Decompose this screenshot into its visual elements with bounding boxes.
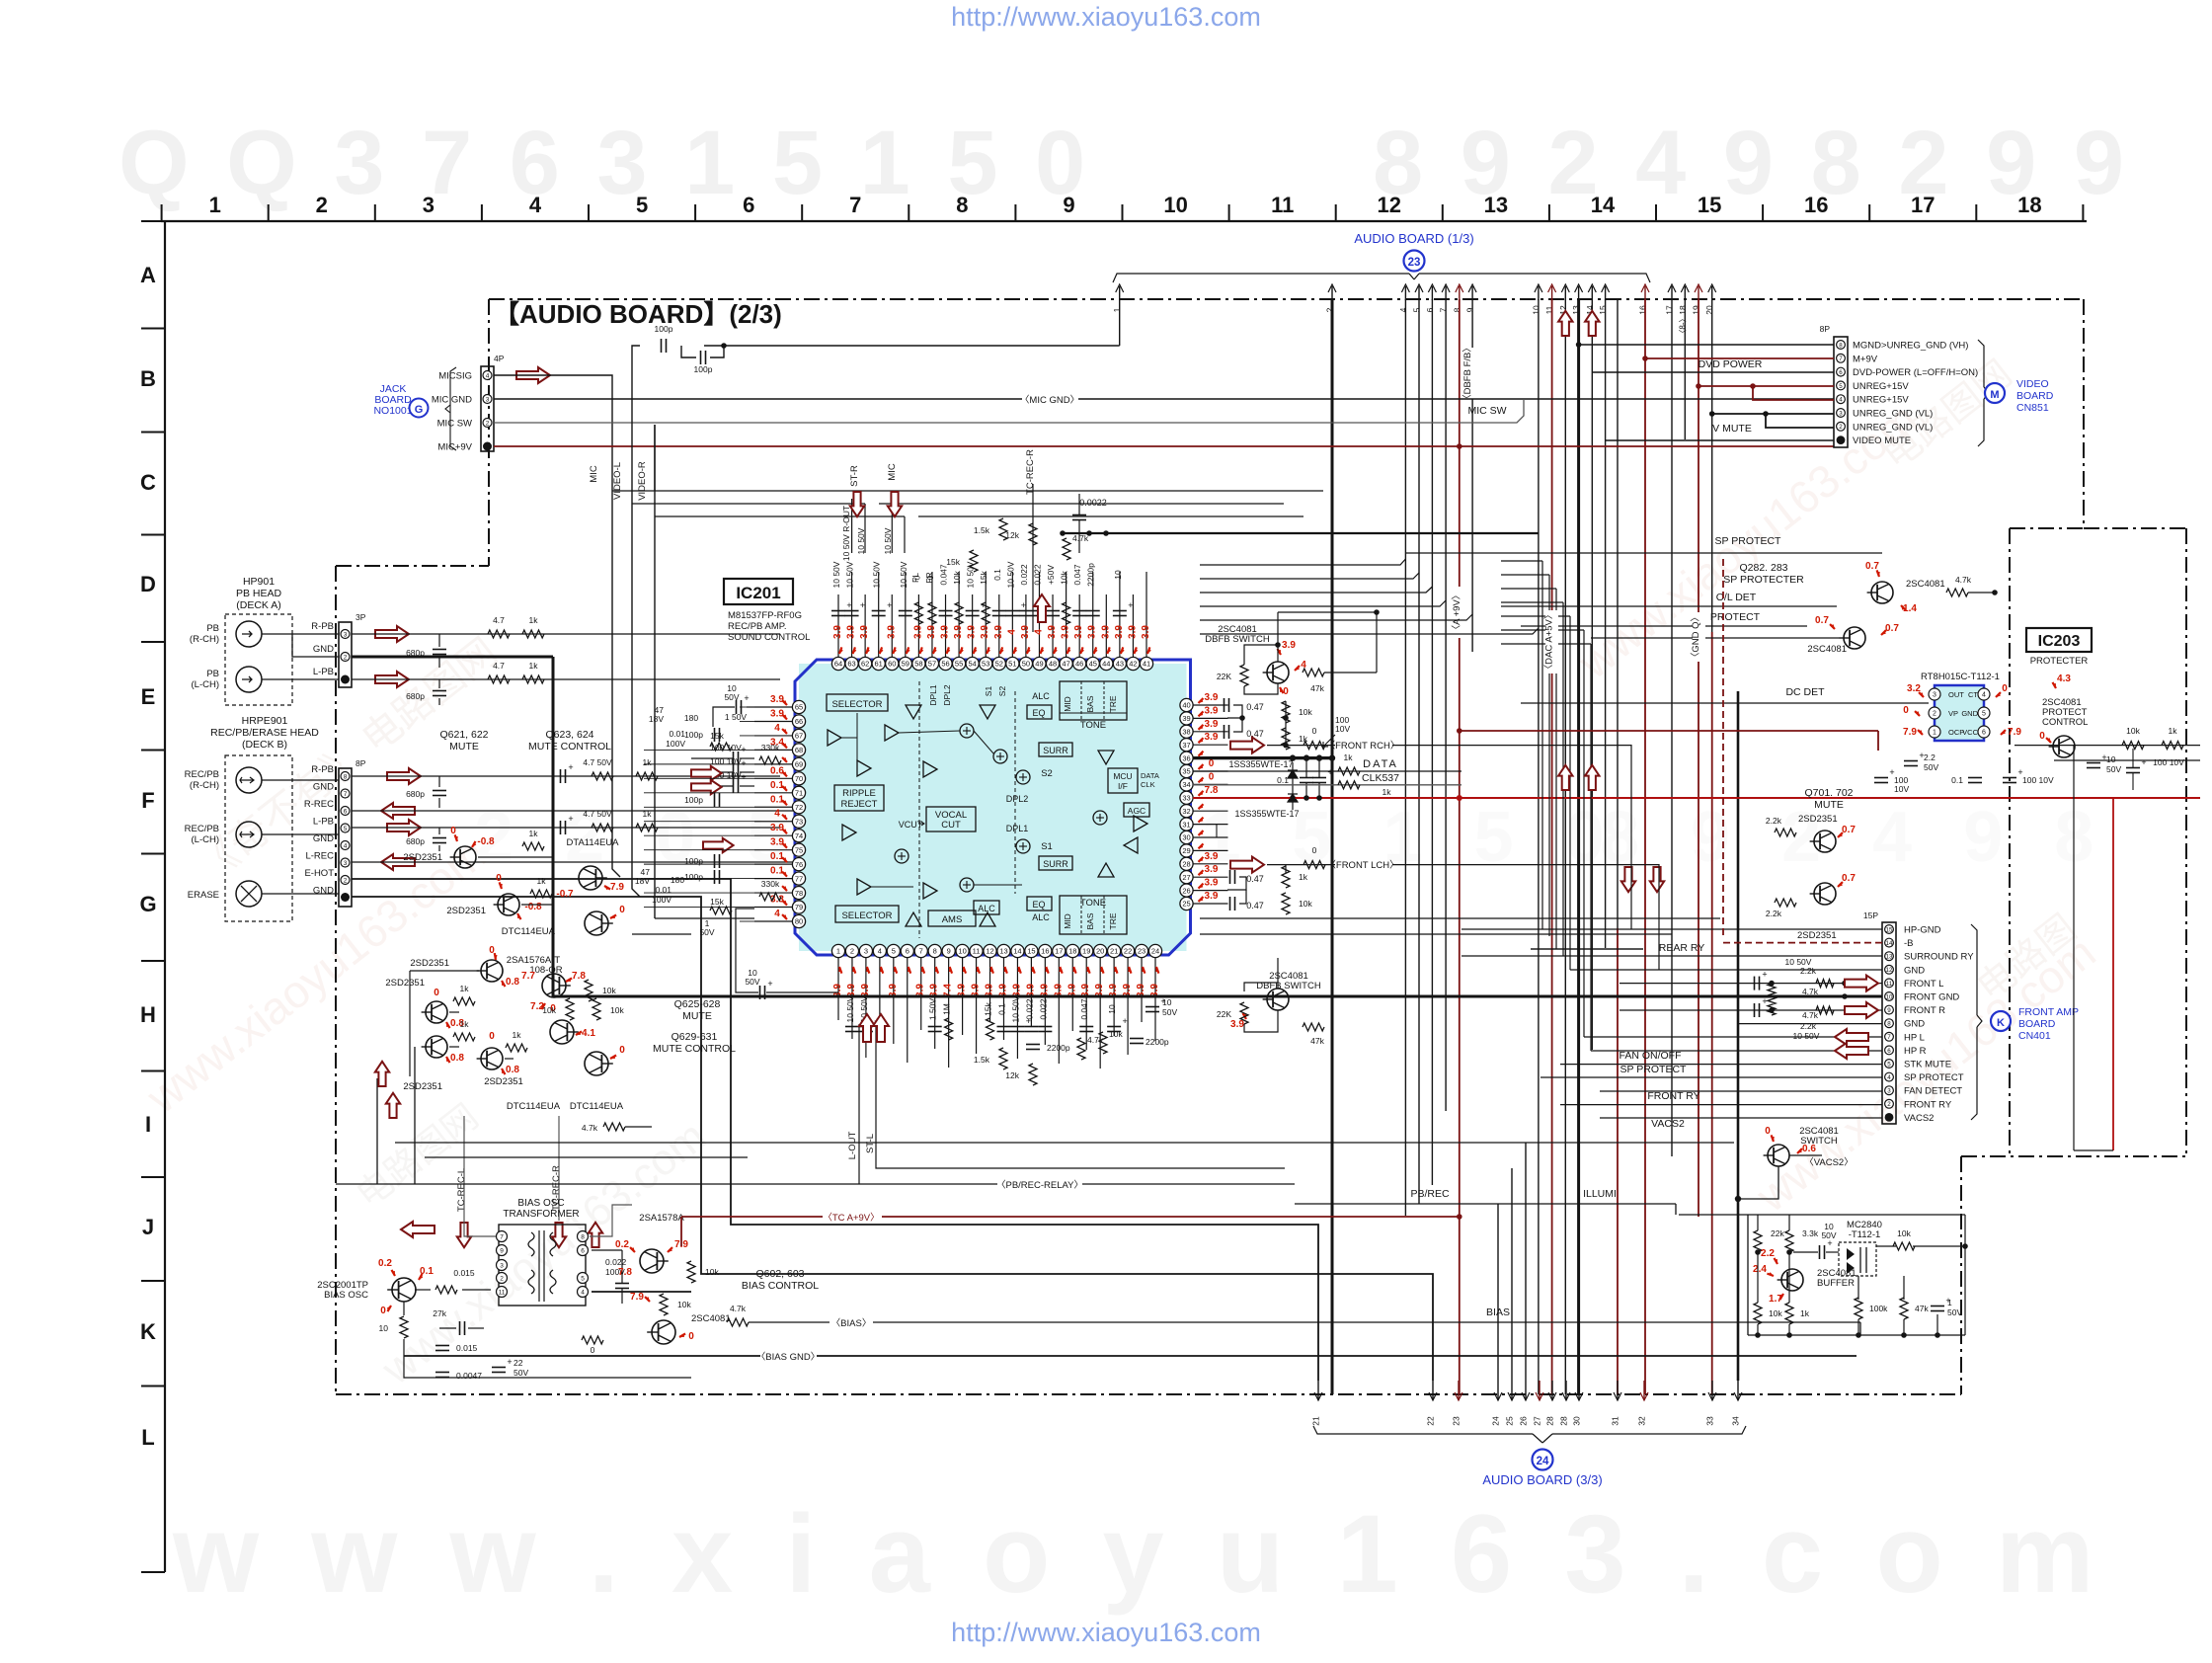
svg-text:10V: 10V [1335, 724, 1350, 734]
svg-text:2: 2 [1887, 1101, 1891, 1108]
svg-text:3.9: 3.9 [1073, 625, 1084, 639]
top bus pin 17 [1671, 286, 1673, 300]
svg-text:3.9: 3.9 [1141, 625, 1151, 639]
wire MGND [1579, 344, 1834, 346]
svg-text:3.9: 3.9 [993, 625, 1004, 639]
svg-text:4: 4 [1398, 307, 1408, 312]
pin 51 [1006, 657, 1019, 670]
svg-text:CT: CT [1968, 690, 1978, 699]
svg-text:4: 4 [1006, 629, 1017, 635]
capacitor 0.47 r40 [1224, 698, 1225, 712]
svg-text:SP PROTECT: SP PROTECT [1904, 1072, 1964, 1083]
wire vertical bus [1431, 299, 1433, 1185]
wire vertical bus [1577, 299, 1580, 1394]
svg-text:0.1: 0.1 [770, 866, 784, 877]
svg-text:0.022: 0.022 [1019, 564, 1029, 586]
svg-text:15P: 15P [1863, 911, 1878, 920]
wire BIAS [749, 1321, 829, 1323]
wire R-PB deck A [352, 633, 780, 635]
capacitor 0.0047 [435, 1372, 449, 1374]
svg-text:79: 79 [795, 903, 803, 911]
svg-text:65: 65 [795, 703, 803, 712]
svg-text:MIC: MIC [887, 463, 898, 481]
svg-text:0.47: 0.47 [1246, 874, 1264, 884]
top bus pin 5 [1418, 286, 1420, 300]
wire spb base [1591, 637, 1840, 639]
red arrow deck B lrec [381, 854, 415, 870]
svg-text:2: 2 [1933, 711, 1936, 718]
op-amp IC201 label box [724, 579, 793, 604]
top bus pin 19 [1698, 286, 1699, 300]
svg-text:OUT: OUT [1948, 690, 1964, 699]
svg-text:0.1: 0.1 [1277, 775, 1289, 785]
selector box top [827, 694, 888, 711]
cap 2200p below a [1026, 1044, 1040, 1046]
svg-text:47k: 47k [1310, 683, 1324, 693]
head REC/PB L-CH [236, 822, 262, 847]
svg-text:VACS2: VACS2 [1904, 1113, 1934, 1124]
bottom bus pin 26 [1525, 1381, 1527, 1400]
pin video UNREG+15V [1837, 381, 1846, 390]
wire front gnd [1332, 995, 1882, 998]
svg-text:34: 34 [1182, 780, 1190, 789]
svg-text:60: 60 [888, 660, 896, 669]
red arrow up bus [1585, 311, 1599, 336]
wire mute bottom rail [1856, 801, 1857, 803]
svg-text:S2: S2 [1041, 768, 1053, 779]
pin 7 [914, 944, 927, 957]
svg-text:0: 0 [1765, 1126, 1771, 1137]
svg-text:18: 18 [2017, 193, 2041, 217]
pin 29 [1180, 844, 1193, 857]
svg-text:2.2k: 2.2k [1766, 909, 1782, 918]
svg-text:10: 10 [958, 947, 966, 956]
bottom bus pin 24 [1497, 1381, 1499, 1400]
bottom bus pin 25 [1511, 1381, 1513, 1400]
eq box top [1027, 705, 1052, 719]
transformer coils [528, 1232, 556, 1256]
svg-text:0: 0 [434, 988, 439, 998]
svg-text:50V: 50V [699, 927, 714, 937]
wire L-REC [352, 861, 800, 863]
svg-text:EQ: EQ [1032, 708, 1045, 718]
wire sp protect start [1406, 552, 1521, 554]
photocoupler MC2840 dashed box [1839, 1242, 1876, 1276]
svg-text:7: 7 [919, 947, 923, 956]
svg-text:0: 0 [1903, 705, 1909, 716]
wire vertical bus [1551, 299, 1553, 1394]
pin 20 [1094, 944, 1107, 957]
svg-text:〈MIC GND〉: 〈MIC GND〉 [1020, 395, 1079, 406]
svg-text:MIC: MIC [589, 465, 599, 483]
svg-text:2: 2 [344, 878, 348, 885]
svg-text:HP-GND: HP-GND [1904, 925, 1941, 936]
svg-text:+: + [2141, 757, 2146, 767]
svg-text:2SD2351: 2SD2351 [403, 852, 442, 863]
svg-text:100 10V: 100 10V [2153, 757, 2184, 767]
svg-text:4.3: 4.3 [2057, 673, 2071, 684]
svg-text:BIAS OSC: BIAS OSC [324, 1290, 368, 1301]
pin 64 [831, 657, 844, 670]
surr box bottom [1039, 856, 1072, 870]
pin 15P HP L [1885, 1032, 1894, 1041]
svg-text:0.022: 0.022 [1032, 564, 1042, 586]
svg-text:MID: MID [1063, 696, 1072, 712]
tone block bottom [1060, 896, 1127, 934]
svg-text:10: 10 [1162, 997, 1172, 1007]
capacitor 0.015b [435, 1345, 449, 1347]
pin video UNREG+15V [1837, 395, 1846, 404]
svg-text:9: 9 [1063, 193, 1074, 217]
svg-text:MIC SW: MIC SW [437, 419, 472, 430]
svg-text:PROTECTER: PROTECTER [2030, 656, 2089, 667]
pin 63 [845, 657, 858, 670]
svg-text:13: 13 [1886, 954, 1893, 961]
svg-text:24: 24 [1491, 1416, 1501, 1426]
svg-text:〈FRONT LCH〉: 〈FRONT LCH〉 [1326, 860, 1398, 871]
pin 4 [873, 944, 886, 957]
pin 15P FRONT RY [1885, 1099, 1894, 1108]
pin 15P SP PROTECT [1885, 1072, 1894, 1081]
svg-text:9: 9 [500, 1248, 504, 1255]
svg-text:48: 48 [1049, 660, 1057, 669]
svg-text:50V: 50V [724, 692, 739, 702]
svg-text:3P: 3P [355, 612, 366, 622]
pin 60 [886, 657, 899, 670]
svg-text:GND: GND [313, 644, 334, 655]
resistor 3.3k mc [1785, 1230, 1793, 1252]
wire gnd erase [352, 897, 1433, 1381]
svg-text:14: 14 [1886, 940, 1893, 947]
svg-text:+: + [860, 600, 865, 610]
wire dbfb top [1244, 645, 1278, 662]
pin 13 [997, 944, 1010, 957]
svg-text:18V: 18V [635, 876, 650, 886]
pin video M+9V [1837, 354, 1846, 362]
resistor 4.7k bias [727, 1318, 749, 1326]
svg-text:E: E [141, 684, 156, 709]
node 24 circle [1533, 1450, 1553, 1470]
wire R-REC [352, 810, 800, 812]
svg-text:11: 11 [1886, 981, 1893, 988]
svg-text:36: 36 [1182, 753, 1190, 762]
svg-text:+: + [568, 762, 573, 772]
svg-text:7.9: 7.9 [2008, 727, 2021, 738]
svg-text:42: 42 [1129, 660, 1137, 669]
wire GND bold deck [552, 657, 555, 997]
svg-text:2: 2 [344, 655, 348, 662]
top bus pin 11 [1551, 286, 1553, 300]
res 4.7k below [1077, 1038, 1085, 1060]
resistor 1k mc [1785, 1303, 1793, 1324]
pin 15P FRONT L [1885, 979, 1894, 988]
connector 4P jack [481, 366, 494, 451]
svg-text:GND: GND [313, 886, 334, 897]
wire mc bottom rail [1748, 1334, 1965, 1336]
wire harness top1 [1200, 559, 1405, 565]
wire right edge h2 [2054, 759, 2200, 761]
svg-text:Q602, 603: Q602, 603 [755, 1268, 804, 1280]
svg-text:27: 27 [1182, 873, 1190, 882]
svg-text:33: 33 [1182, 794, 1190, 803]
svg-text:(L-CH): (L-CH) [192, 834, 220, 845]
resistor 10k [955, 602, 963, 624]
cap plus deck B L [560, 821, 562, 834]
svg-text:680p: 680p [406, 836, 425, 846]
capacitor 0.022 below [1038, 1026, 1052, 1028]
svg-text:+50V: +50V [1046, 565, 1056, 585]
svg-text:2SD2351: 2SD2351 [385, 978, 425, 989]
svg-text:Q282. 283: Q282. 283 [1739, 562, 1787, 574]
svg-text:SURROUND RY: SURROUND RY [1904, 952, 1974, 963]
svg-text:3.9: 3.9 [1205, 719, 1219, 730]
wire TC A+9V cont [882, 1216, 1460, 1218]
agc box [1124, 803, 1149, 817]
svg-text:+: + [507, 1357, 512, 1367]
pin 39 [1180, 712, 1193, 725]
pin 15P FRONT GND [1885, 992, 1894, 1001]
wire tc-rec-r up [1032, 484, 1034, 632]
svg-text:10k: 10k [705, 1267, 719, 1277]
svg-text:10k: 10k [1299, 707, 1312, 717]
connector 3P deck A [339, 622, 352, 687]
svg-text:0.015: 0.015 [456, 1343, 478, 1353]
svg-text:44: 44 [1102, 660, 1110, 669]
svg-text:10k: 10k [1109, 1029, 1123, 1039]
bottom bus pin 28 [1565, 1381, 1567, 1400]
svg-text:R-PB: R-PB [311, 764, 334, 775]
svg-text:H: H [140, 1002, 156, 1027]
wire DVD POWER [1592, 371, 1834, 373]
red arrow down mic [888, 492, 902, 516]
svg-text:DTC114EUA: DTC114EUA [502, 926, 556, 937]
svg-text:7: 7 [1439, 307, 1449, 312]
svg-text:3: 3 [486, 397, 490, 404]
svg-text:STK MUTE: STK MUTE [1904, 1060, 1951, 1070]
svg-text:0: 0 [380, 1306, 386, 1316]
wire MICSIG [494, 375, 612, 491]
svg-text:(R-CH): (R-CH) [190, 780, 219, 791]
svg-text:1SS355WTE-17: 1SS355WTE-17 [1228, 759, 1293, 769]
svg-text:15: 15 [1598, 305, 1608, 315]
wire mid right pin31 [1193, 825, 1217, 837]
wire VIDEO MUTE [1606, 439, 1834, 441]
svg-text:MIC+9V: MIC+9V [437, 442, 472, 453]
svg-text:0: 0 [2039, 731, 2045, 742]
transformer pin 4 [578, 1287, 589, 1298]
svg-text:5: 5 [1839, 383, 1843, 390]
capacitor 10 50V ic203 [2087, 762, 2100, 764]
svg-text:10 50V R-OUT: 10 50V R-OUT [841, 506, 851, 561]
capacitor 1 50V mc [1931, 1306, 1944, 1307]
wire harness right 5 [1501, 615, 1570, 617]
brace front amp [1971, 924, 1977, 1015]
resistor 2.2k fr [1816, 1006, 1834, 1014]
wire TC A+9V dark red [681, 1216, 823, 1218]
capacitor 100 10V [733, 765, 735, 779]
svg-text:8: 8 [581, 1234, 585, 1241]
wire harness right 2 [1501, 574, 1549, 576]
svg-text:3.9: 3.9 [886, 625, 897, 639]
pin 2 [845, 944, 858, 957]
svg-text:0.1: 0.1 [770, 794, 784, 805]
svg-text:SELECTOR: SELECTOR [831, 699, 882, 710]
svg-text:AUDIO BOARD (1/3): AUDIO BOARD (1/3) [1354, 231, 1473, 246]
pin 8P GND [341, 789, 350, 798]
wire pb rec relay [336, 1183, 997, 1185]
svg-text:DVD-POWER (L=OFF/H=ON): DVD-POWER (L=OFF/H=ON) [1853, 367, 1978, 378]
wires head B [262, 779, 339, 781]
svg-text:3.9: 3.9 [1205, 732, 1219, 743]
svg-text:1k: 1k [643, 757, 653, 767]
svg-text:B: B [140, 366, 156, 391]
svg-text:w w w . x i a o y u 1 6 3 . c: w w w . x i a o y u 1 6 3 . c o m [172, 1492, 2104, 1616]
resistor 10 bias [400, 1316, 408, 1338]
svg-text:38: 38 [1182, 728, 1190, 737]
capacitor 0.047 below [1079, 1026, 1093, 1028]
svg-text:TONE: TONE [1080, 898, 1106, 909]
wire BIAS GND [404, 1355, 760, 1357]
ripple reject box [834, 785, 884, 811]
svg-text:39: 39 [1182, 714, 1190, 723]
capacitor 100p left [714, 854, 716, 868]
capacitor +50V [1046, 610, 1060, 612]
svg-text:0: 0 [489, 1031, 495, 1042]
svg-text:3: 3 [344, 632, 348, 639]
pin 15P FAN DETECT [1885, 1086, 1894, 1095]
svg-text:0.7: 0.7 [1842, 873, 1856, 884]
capacitor 0.1 below [996, 1026, 1010, 1028]
svg-text:BOARD: BOARD [2018, 1018, 2056, 1030]
svg-text:17: 17 [1911, 193, 1935, 217]
pin 77 [792, 872, 805, 885]
svg-text:76: 76 [795, 860, 803, 869]
svg-text:SELECTOR: SELECTOR [841, 911, 892, 921]
pin 21 [1108, 944, 1121, 957]
wire rear ry run [1531, 948, 1643, 950]
svg-text:L-OUT: L-OUT [847, 1132, 858, 1160]
pin 67 [792, 729, 805, 742]
pin 15P SURROUND RY [1885, 952, 1894, 961]
svg-text:4: 4 [581, 1290, 585, 1297]
capacitor 680p deck A L [438, 679, 440, 688]
svg-text:0.8: 0.8 [450, 1053, 464, 1064]
svg-text:100V: 100V [666, 739, 685, 749]
red arrow up tc-rec-r [1034, 594, 1050, 622]
svg-text:50V: 50V [745, 977, 759, 987]
wires right pins 40-37 [1227, 705, 1242, 718]
svg-text:13: 13 [1484, 193, 1508, 217]
wire front gnd bold left [553, 995, 1332, 998]
svg-text:〈FRONT RCH〉: 〈FRONT RCH〉 [1326, 741, 1400, 752]
svg-text:8: 8 [956, 193, 968, 217]
capacitor 10 50V fr [1754, 1003, 1756, 1017]
svg-text:51: 51 [1008, 660, 1016, 669]
wire vertical bus [1684, 299, 1686, 439]
svg-text:〈DBFB F/B〉: 〈DBFB F/B〉 [1462, 343, 1473, 404]
svg-text:61: 61 [875, 660, 883, 669]
pin 30 [1180, 831, 1193, 843]
svg-text:3.9: 3.9 [832, 625, 843, 639]
svg-text:0.47: 0.47 [1246, 702, 1264, 712]
svg-text:10k: 10k [1897, 1228, 1911, 1238]
svg-text:0.1: 0.1 [770, 851, 784, 862]
wire MIC+9V dark red [494, 445, 1834, 447]
resistor 10k r25 [1282, 893, 1290, 914]
pin 1 [831, 944, 844, 957]
pin IC203 3 [1929, 688, 1940, 700]
svg-text:7.8: 7.8 [1205, 785, 1219, 796]
svg-text:7: 7 [849, 193, 861, 217]
svg-text:UNREG+15V: UNREG+15V [1853, 395, 1909, 406]
svg-text:〈8-〉: 〈8-〉 [1678, 314, 1687, 337]
svg-text:DPL1: DPL1 [928, 684, 938, 706]
red arrow down rear a [1621, 867, 1635, 892]
red arrows left mid [691, 766, 722, 780]
svg-text:3.9: 3.9 [1205, 878, 1219, 889]
capacitor 22 50V [492, 1367, 506, 1369]
svg-text:10 50V: 10 50V [883, 527, 893, 554]
svg-text:14: 14 [1591, 193, 1616, 217]
svg-text:100 10V: 100 10V [710, 756, 742, 766]
red arrow up cluster b [386, 1093, 400, 1118]
svg-text:3.9: 3.9 [1047, 625, 1058, 639]
svg-text:17: 17 [1665, 305, 1675, 315]
wire vertical bus [1711, 632, 1713, 1394]
svg-text:23: 23 [1408, 257, 1421, 269]
svg-text:TC-REC-L: TC-REC-L [456, 1168, 467, 1212]
svg-text:HP901: HP901 [243, 576, 275, 588]
top bus pin 13 [1578, 286, 1580, 300]
bottom bus pin 31 [1617, 1381, 1619, 1400]
resistor 47k top [1303, 669, 1324, 676]
svg-text:6: 6 [581, 1248, 585, 1255]
resistor 47k bottom [1303, 1023, 1324, 1031]
capacitor 100p left [714, 793, 716, 807]
svg-text:BUFFER: BUFFER [1817, 1278, 1855, 1289]
pin 28 [1180, 857, 1193, 870]
capacitor 100 10V ic203 [1874, 777, 1888, 779]
pin 26 [1180, 884, 1193, 897]
svg-text:3.9: 3.9 [980, 625, 990, 639]
svg-text:10: 10 [1531, 305, 1540, 315]
svg-text:DBFB SWITCH: DBFB SWITCH [1205, 634, 1270, 645]
svg-text:O/L DET: O/L DET [1716, 592, 1757, 603]
svg-text:Q621, 622: Q621, 622 [439, 729, 488, 741]
svg-text:10 50V: 10 50V [899, 561, 908, 588]
wire sp protect [1521, 552, 1882, 554]
svg-text:11: 11 [1544, 305, 1554, 314]
svg-text:TRE: TRE [1108, 695, 1118, 712]
red arrow r-pb [375, 626, 409, 642]
svg-text:PB/REC: PB/REC [1410, 1188, 1450, 1200]
svg-text:43: 43 [1116, 660, 1124, 669]
svg-text:ALC: ALC [1032, 691, 1050, 701]
pin 37 [1180, 739, 1193, 752]
svg-text:3.9: 3.9 [770, 837, 784, 848]
svg-text:I: I [145, 1112, 151, 1137]
capacitor 0.022 below [1024, 1026, 1038, 1028]
svg-text:46: 46 [1075, 660, 1083, 669]
pin 33 [1180, 791, 1193, 804]
pin 40 [1180, 698, 1193, 711]
svg-text:2: 2 [486, 421, 490, 428]
top bus pin 10 [1538, 286, 1540, 300]
svg-text:15: 15 [1886, 926, 1893, 933]
pin video MGND>UNREG_GND (VH) [1837, 341, 1846, 350]
transistor 2SC4081 buffer [1781, 1269, 1803, 1291]
wire right vert bundle g [1590, 644, 1592, 1051]
